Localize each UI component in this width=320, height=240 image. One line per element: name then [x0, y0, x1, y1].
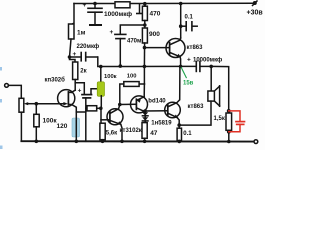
node VT2 collector / bd140 base: [118, 103, 122, 107]
resistor 100: [120, 82, 145, 105]
svg-text:100к: 100к: [43, 118, 58, 125]
wire input: [8, 85, 21, 98]
terminal input: [5, 84, 9, 88]
potentiometer: [19, 98, 36, 141]
terminal +30в: [253, 1, 258, 6]
svg-text:кт3102к: кт3102к: [120, 128, 142, 134]
capacitor 1000мкф: [88, 4, 102, 25]
transistor VT3 кт863: [165, 66, 181, 125]
node output (15в): [179, 65, 183, 69]
diode D2 1н5819: [142, 116, 148, 123]
node 5,6к rail: [101, 140, 105, 144]
wire x144 down: [143, 66, 145, 84]
wire to 1,5к branch: [211, 66, 229, 111]
svg-text:470: 470: [150, 11, 161, 18]
wire speaker down: [210, 66, 212, 91]
wire source through 120: [75, 112, 77, 141]
capacitor red: [229, 111, 245, 132]
node wiper: [35, 102, 39, 106]
wire bottom rail: [21, 140, 254, 142]
svg-text:+: +: [187, 57, 191, 64]
transistor bd140: [131, 96, 148, 113]
svg-text:+: +: [73, 51, 77, 58]
node 0.1 cap tap: [179, 24, 183, 28]
wire VT1 collector up: [180, 4, 182, 39]
transistor VT2 кт3102к: [107, 105, 123, 142]
svg-text:кт863: кт863: [188, 104, 205, 110]
svg-text:0.1: 0.1: [185, 15, 194, 21]
node 47 rail: [143, 140, 147, 144]
svg-text:100: 100: [127, 74, 137, 80]
wire node down: [100, 108, 102, 123]
blue mark left edge 3: [0, 146, 3, 150]
wire source branch: [76, 111, 86, 113]
svg-text:100к: 100к: [104, 74, 117, 80]
node VT2 emitter rail: [120, 140, 124, 144]
resistor 100к (green highlight): [97, 82, 104, 97]
svg-text:220мкф: 220мкф: [77, 43, 100, 50]
transistor VT1 кт863: [166, 38, 185, 66]
wire top rail left: [74, 3, 115, 5]
node 1,5к rail: [227, 140, 231, 144]
resistor 47: [142, 123, 147, 142]
resistor 0.1: [177, 125, 181, 141]
svg-text:1м: 1м: [77, 30, 86, 37]
resistor 120 (blue highlight): [72, 118, 80, 137]
svg-text:+: +: [78, 88, 82, 95]
svg-text:1н5819: 1н5819: [151, 121, 172, 127]
ground stub top: [137, 4, 142, 14]
wire green to node: [100, 96, 102, 109]
blue mark left edge 2: [0, 99, 2, 103]
svg-text:10000мкф: 10000мкф: [193, 57, 222, 64]
wire top rail mid: [130, 3, 144, 5]
node red top: [227, 109, 231, 113]
wire VT3 base: [145, 110, 167, 112]
svg-text:470м: 470м: [127, 39, 142, 45]
blue mark left edge 1: [0, 67, 2, 71]
wire mid horizontal: [101, 65, 181, 67]
svg-text:15в: 15в: [183, 81, 194, 87]
node top rail / C1: [93, 2, 97, 6]
node mid wire x144: [143, 65, 147, 69]
node 470м wire: [119, 64, 123, 68]
node 0.1 rail: [178, 140, 182, 144]
node VT3 emitter: [177, 123, 181, 127]
terminal output bottom right: [254, 140, 258, 144]
wire bd140 emitter up: [143, 84, 145, 97]
node speaker top: [209, 65, 213, 69]
wire base VT1: [145, 47, 170, 49]
node diode top: [143, 109, 147, 113]
wire 5,6к to rail: [102, 140, 104, 142]
wire speaker bottom: [179, 101, 211, 125]
svg-text:900: 900: [149, 31, 160, 38]
node red bottom: [227, 130, 231, 134]
svg-text:bd140: bd140: [148, 99, 166, 105]
resistor 900: [142, 28, 147, 66]
svg-text:120: 120: [57, 123, 68, 130]
node hbox/green/5.6k: [99, 107, 103, 111]
speaker: [208, 86, 220, 107]
wire 2к to drain node: [74, 80, 76, 91]
capacitor + (source bypass): [75, 83, 98, 142]
node source rail: [75, 140, 79, 144]
wire VT2 base tap: [101, 119, 109, 121]
capacitor 10000мкф: [181, 62, 212, 72]
node collector rail: [179, 2, 183, 6]
node 1м/220мкф/2к: [68, 55, 72, 59]
diode D1 1н5819: [142, 111, 148, 116]
svg-text:кп302б: кп302б: [45, 77, 66, 84]
capacitor 470м: [115, 25, 145, 66]
annotation line 15в: [181, 67, 186, 77]
wire 1м to node: [70, 39, 72, 57]
node VT1 base: [143, 46, 147, 50]
svg-text:0.1: 0.1: [183, 131, 192, 137]
svg-text:1000мкф: 1000мкф: [104, 11, 132, 18]
node green top: [99, 65, 103, 69]
svg-text:+: +: [110, 29, 114, 36]
capacitor 0.1: [181, 22, 198, 31]
resistor top unlabeled: [115, 2, 130, 8]
wire top rail right: [144, 2, 253, 4]
resistor horizontal small: [86, 106, 97, 111]
wire green drop: [100, 67, 102, 83]
resistor 100к left: [34, 104, 39, 142]
ground bar under 1000мкф: [90, 24, 101, 26]
svg-text:5,6к: 5,6к: [106, 131, 117, 137]
resistor 1,5к: [226, 111, 232, 141]
transistor VT кп302б: [36, 90, 76, 112]
svg-text:1,5к: 1,5к: [214, 116, 225, 122]
wire hbox to node: [97, 107, 101, 109]
resistor 470: [142, 2, 147, 28]
svg-text:кт863: кт863: [187, 45, 204, 51]
svg-text:2к: 2к: [80, 69, 86, 75]
resistor R 2к: [70, 57, 78, 80]
svg-text:+30в: +30в: [247, 10, 264, 17]
svg-text:47: 47: [150, 130, 158, 137]
svg-text:+: +: [83, 2, 87, 9]
capacitor 220мкф: [70, 53, 98, 61]
wire 220мкф down: [98, 57, 101, 67]
resistor R 1м: [69, 24, 75, 39]
node 470/900: [143, 23, 147, 27]
resistor 5,6к: [100, 123, 105, 140]
wire to 1м: [72, 4, 75, 25]
wire bd140 base: [120, 103, 136, 105]
node 100к rail: [35, 140, 39, 144]
